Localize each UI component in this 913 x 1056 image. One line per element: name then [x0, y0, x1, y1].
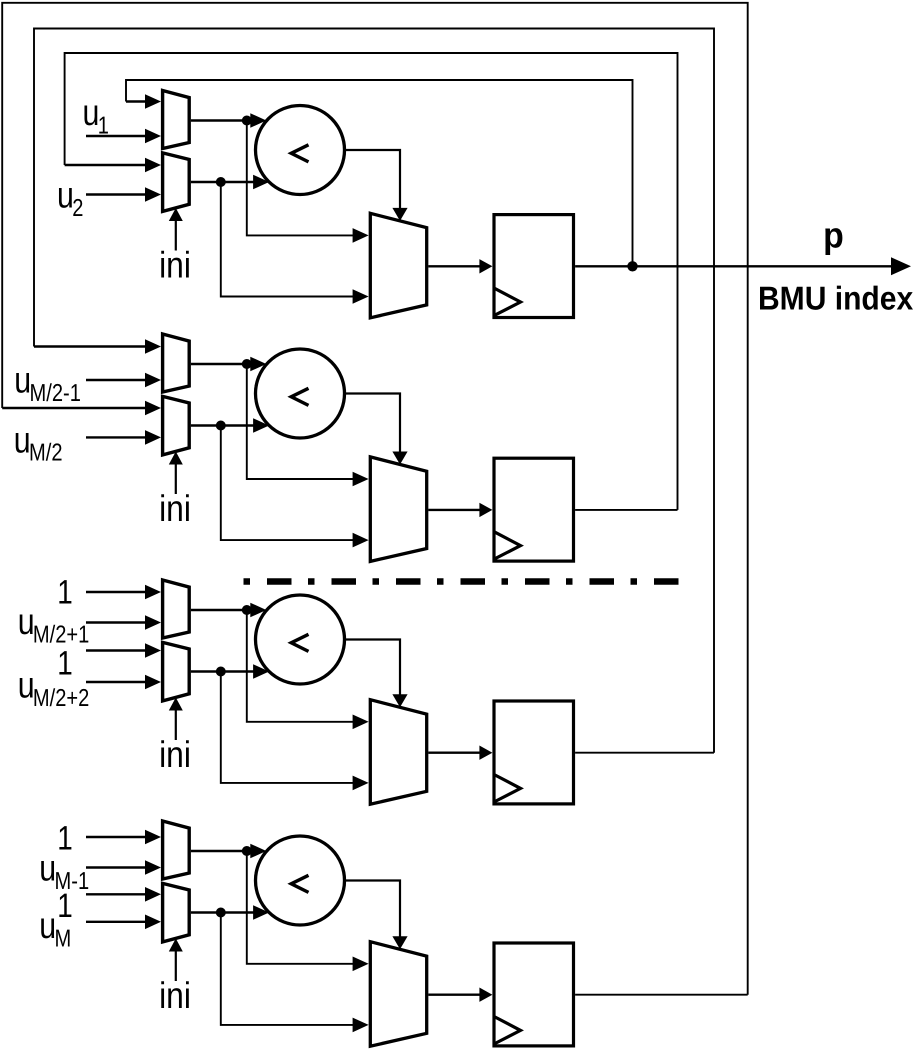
wire MUX1B out to CMP1 lower input: [191, 175, 269, 190]
wire input u2: [86, 187, 161, 202]
label u M-1: [39, 848, 89, 895]
feedback wire into MUX2A top input: [34, 339, 161, 354]
comparator CMP3: [256, 595, 345, 684]
ini select arrow into MUX1B: [169, 208, 183, 251]
wire input constant 1 (MUX4B): [86, 887, 161, 902]
wire input uM/2-1: [86, 373, 161, 388]
wire input uM/2: [86, 430, 161, 445]
wire input uM-1: [86, 860, 161, 875]
node N2A: [242, 359, 252, 369]
mux MUX1A: [163, 91, 190, 149]
label constant 1 for MUX3A: [57, 573, 73, 611]
node N3A: [242, 605, 252, 615]
wire input uM: [86, 915, 161, 930]
wire REG2 Q output: [575, 509, 677, 511]
wire CMP1 out to MUX1C select: [345, 150, 408, 221]
wire MUX1C out to REG1 D input: [428, 259, 492, 273]
svg-text:1: 1: [57, 887, 73, 925]
label u M/2: [14, 419, 63, 466]
wire REG1 Q output to p: [575, 257, 911, 275]
svg-text:1: 1: [57, 573, 73, 611]
register REG2: [494, 458, 574, 561]
mux MUX4B: [163, 883, 190, 942]
svg-text:ini: ini: [159, 488, 191, 529]
mux MUX2C: [370, 457, 426, 562]
wire CMP3 out to MUX3C select: [345, 640, 408, 708]
node N1B: [216, 177, 226, 187]
wire N1A to MUX1C input 0: [247, 121, 369, 243]
wire input u1: [86, 129, 161, 144]
node P (REG1 output junction): [627, 261, 637, 271]
mux MUX1C: [370, 213, 426, 317]
label ini (block 1): [159, 245, 191, 286]
wire MUX2B out to CMP2 lower input: [191, 418, 269, 433]
ini select arrow into MUX2B: [169, 452, 183, 495]
wire REG3 Q output: [575, 752, 714, 754]
wire MUX4C out to REG4 D input: [428, 988, 492, 1002]
wire N3A to MUX3C input 0: [247, 610, 369, 729]
label constant 1 for MUX3B: [57, 644, 73, 682]
wire MUX4B out to CMP4 lower input: [191, 905, 269, 920]
mux MUX3C: [370, 700, 426, 805]
node N4A: [242, 846, 252, 856]
feedback wire into MUX1B top input: [65, 158, 161, 173]
label u M: [39, 905, 71, 952]
wire N2A to MUX2C input 0: [247, 364, 369, 486]
svg-text:p: p: [823, 215, 844, 256]
wire N2B to MUX2C input 1: [221, 426, 369, 548]
wire MUX2C out to REG2 D input: [428, 503, 492, 517]
wire MUX3A out to CMP3 upper input: [191, 603, 266, 618]
wire MUX1A out to CMP1 upper input: [191, 113, 266, 128]
wire MUX3C out to REG3 D input: [428, 746, 492, 760]
mux MUX3A: [163, 580, 190, 638]
node N3B: [216, 667, 226, 677]
feedback wire REG4 to MUX2B: [2, 3, 748, 995]
label ini (block 3): [159, 734, 191, 775]
mux MUX4A: [163, 821, 190, 879]
wire N4B to MUX4C input 1: [221, 913, 369, 1033]
mux MUX2A: [163, 334, 190, 392]
ini select arrow into MUX4B: [169, 939, 183, 982]
wire REG4 Q output: [575, 994, 748, 996]
wire CMP2 out to MUX2C select: [345, 394, 408, 465]
label constant 1 for MUX4A: [57, 820, 73, 858]
label u1: [83, 92, 109, 139]
label p (output): [823, 215, 844, 256]
label constant 1 for MUX4B: [57, 887, 73, 925]
mux MUX2B: [163, 396, 190, 455]
node N2B: [216, 421, 226, 431]
wire input constant 1 (MUX3B): [86, 643, 161, 658]
wire N3B to MUX3C input 1: [221, 672, 369, 791]
node N4B: [216, 908, 226, 918]
wire MUX2A out to CMP2 upper input: [191, 357, 266, 372]
label BMU index: [758, 280, 913, 317]
feedback wire into MUX2B top input: [2, 401, 161, 416]
label ini (block 2): [159, 488, 191, 529]
wire MUX4A out to CMP4 upper input: [191, 844, 266, 859]
node N1A: [242, 116, 252, 126]
svg-text:BMU index: BMU index: [758, 280, 913, 317]
wire input uM/2+2: [86, 675, 161, 690]
wire input uM/2+1: [86, 615, 161, 630]
wire N4A to MUX4C input 0: [247, 851, 369, 971]
label u M/2-1: [14, 360, 81, 407]
stage divider (dash-dot): [244, 578, 680, 585]
comparator CMP2: [256, 349, 345, 438]
svg-text:ini: ini: [159, 734, 191, 775]
svg-text:ini: ini: [159, 245, 191, 286]
feedback wire into MUX1A top input: [126, 94, 161, 109]
svg-text:1: 1: [57, 644, 73, 682]
comparator CMP1: [256, 106, 345, 195]
wire CMP4 out to MUX4C select: [345, 881, 408, 950]
feedback wire REG2 to MUX1B: [65, 53, 678, 510]
label u2: [57, 175, 83, 222]
feedback wire REG3 to MUX2A: [34, 29, 714, 753]
feedback wire REG1 to MUX1A: [126, 80, 633, 266]
svg-text:1: 1: [57, 820, 73, 858]
mux MUX3B: [163, 642, 190, 701]
wire MUX3B out to CMP3 lower input: [191, 664, 269, 679]
comparator CMP4: [256, 836, 345, 925]
label u M/2+2: [18, 664, 90, 711]
wire input constant 1 (MUX4A): [86, 830, 161, 845]
ini select arrow into MUX3B: [169, 698, 183, 741]
svg-text:ini: ini: [159, 975, 191, 1016]
mux MUX1B: [163, 153, 190, 212]
label u M/2+1: [18, 601, 90, 648]
wire input constant 1 (MUX3A): [86, 585, 161, 600]
register REG1: [494, 215, 574, 318]
mux MUX4C: [370, 942, 426, 1046]
register REG4: [494, 943, 574, 1046]
register REG3: [494, 701, 574, 804]
label ini (block 4): [159, 975, 191, 1016]
wire N1B to MUX1C input 1: [221, 182, 369, 304]
